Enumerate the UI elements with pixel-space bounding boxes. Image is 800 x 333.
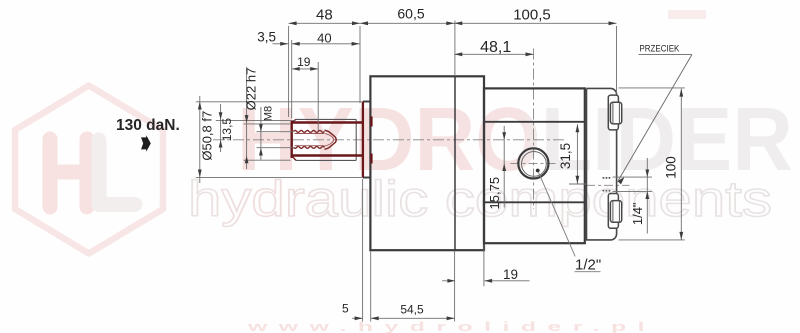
top fitting facet lines — [613, 102, 620, 123]
svg-text:1/4": 1/4" — [630, 202, 645, 225]
ext line body front down — [483, 245, 485, 287]
thread cone end — [325, 130, 337, 149]
port leader dot — [536, 169, 540, 173]
ext line thread bottom — [257, 147, 294, 149]
port circle inner — [522, 152, 547, 177]
dim line 54.5 — [371, 317, 455, 319]
centerline port vertical — [533, 49, 535, 210]
dim line 19 bottom tails — [442, 280, 530, 282]
arrowheads 1/4 outside — [645, 170, 649, 200]
boss front face (section, red) — [362, 102, 364, 178]
leak port dotted rows — [603, 178, 612, 191]
arrowheads 100 inside — [679, 89, 683, 240]
arrowheads 48.1 — [454, 52, 533, 56]
dim line 15.75 — [503, 126, 505, 208]
przeciek leader line — [619, 55, 692, 180]
flange rear face internal line — [454, 76, 456, 250]
arrowhead przeciek leader — [617, 177, 624, 184]
arrowheads 19 top — [292, 67, 319, 71]
ext line 100 top — [619, 87, 685, 89]
svg-text:PRZECIEK: PRZECIEK — [639, 44, 679, 54]
body (gear housing) outline — [484, 88, 585, 243]
ext line 31.5 bottom — [569, 183, 586, 185]
svg-text:5: 5 — [342, 302, 349, 316]
watermark letter L — [99, 140, 135, 205]
shaft body lines (section, red) — [292, 123, 363, 156]
ext line leak top — [613, 176, 653, 178]
shaft end face (red) — [291, 121, 293, 158]
arrowheads 3.5 40 — [280, 42, 288, 46]
svg-text:60,5: 60,5 — [397, 6, 424, 22]
bottom fitting facet lines — [613, 201, 620, 222]
svg-text:31,5: 31,5 — [558, 143, 573, 169]
ext line shaft top thin — [216, 119, 296, 121]
arrowheads M8 outside — [259, 124, 263, 155]
svg-text:130 daN.: 130 daN. — [116, 117, 180, 134]
svg-text:48,1: 48,1 — [480, 39, 511, 56]
watermark letter H — [50, 139, 87, 207]
body internal line top — [484, 121, 585, 123]
boss bottom edge — [363, 177, 371, 179]
centerline main shaft axis — [213, 139, 566, 141]
ext line boss bottom left — [196, 177, 363, 179]
dim line 13.5 — [220, 104, 222, 152]
thread cone inner — [325, 133, 334, 146]
dim line row3 19 — [292, 68, 319, 70]
ext line thread top — [257, 131, 294, 133]
thread minor lines — [295, 134, 325, 146]
dim line row2 40 — [292, 43, 360, 45]
ext line 100 bottom — [619, 239, 685, 241]
shaft collar step line — [355, 119, 357, 160]
port circle outer — [518, 148, 548, 178]
dim line row1 48 60.5 100.5 — [289, 22, 617, 24]
centerline leak port — [586, 184, 630, 186]
130daN force arrow — [141, 135, 151, 152]
M8 thread scallops bottom — [294, 146, 325, 148]
ext line shaft top thick — [244, 123, 291, 125]
arrowheads dia50.8 — [198, 102, 202, 178]
svg-text:100: 100 — [663, 156, 678, 179]
bottom fitting hex — [610, 201, 621, 223]
svg-text:15,75: 15,75 — [487, 177, 502, 210]
arrowheads 13.5 outside — [219, 112, 223, 147]
ext line boss face down — [362, 179, 364, 322]
arrowheads row1 — [289, 21, 297, 25]
svg-text:Ø22 h7: Ø22 h7 — [244, 68, 259, 111]
arrowheads 31.5 inside — [576, 124, 580, 184]
top fitting hex — [610, 102, 621, 124]
dim line 48.1 — [454, 53, 533, 55]
watermark top right smudge — [668, 10, 706, 19]
ext line flange rear up — [454, 21, 456, 77]
svg-text:40: 40 — [317, 30, 331, 45]
svg-text:13,5: 13,5 — [220, 118, 234, 142]
body internal line bottom — [484, 201, 585, 203]
arrowheads 19 bottom outside — [447, 279, 492, 283]
svg-text:3,5: 3,5 — [257, 30, 276, 45]
dim line 100 — [680, 89, 682, 240]
arrowhead 5 — [355, 316, 363, 320]
boss top edge — [363, 101, 371, 103]
ext line flange face down — [370, 252, 372, 322]
shaft end chamfers (red) — [292, 119, 296, 160]
ext line flange rear down — [454, 252, 456, 322]
M8 thread scallops top — [294, 130, 325, 132]
svg-text:1/2": 1/2" — [575, 257, 601, 274]
centerline port horizontal — [511, 162, 557, 164]
arrowheads 15.75 outside — [502, 132, 506, 171]
rear cover outline — [587, 88, 617, 240]
ext line shaft end top a — [288, 26, 290, 117]
ext line collar/boss — [359, 26, 361, 103]
shaft outer thin lines — [296, 119, 356, 160]
dim line 5 tail — [352, 317, 362, 319]
svg-text:M8: M8 — [263, 106, 275, 121]
port leader line to 1/2 label — [539, 173, 576, 257]
dim line M8 — [260, 107, 262, 160]
flange plate outline — [370, 76, 484, 250]
1/2 label underline — [575, 271, 601, 273]
flange face red segments at shaft — [370, 117, 372, 164]
ext line shaft bottom thin — [244, 159, 291, 161]
svg-text:19: 19 — [297, 55, 311, 69]
bottom fitting pad — [608, 194, 618, 229]
ext line boss top left — [196, 101, 363, 103]
dim line 1/4 — [646, 158, 648, 234]
dim line dia22 — [246, 67, 248, 169]
svg-text:100,5: 100,5 — [513, 7, 551, 24]
svg-text:Ø50,8 f7: Ø50,8 f7 — [200, 111, 215, 161]
ext line cover end up — [616, 26, 618, 94]
dim line dia50.8 — [199, 96, 201, 183]
svg-text:48: 48 — [316, 7, 333, 24]
arrowheads 54.5 inside — [371, 316, 455, 320]
svg-text:54,5: 54,5 — [400, 303, 424, 317]
arrowheads dia22 outside — [245, 115, 249, 163]
dim line 31.5 — [576, 124, 578, 184]
watermark hexagon logo — [15, 86, 163, 254]
ext line leak bottom — [613, 190, 653, 192]
ext line shaft end top b — [291, 40, 293, 119]
dim line row2 3.5 tail — [273, 43, 289, 45]
top fitting pad — [608, 95, 618, 130]
ext line thread depth — [317, 62, 319, 131]
svg-text:19: 19 — [503, 267, 518, 282]
przeciek underline — [638, 54, 692, 56]
